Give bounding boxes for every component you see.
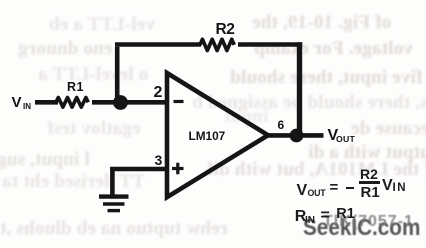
minus sign pin2 (174, 100, 184, 103)
wire ground to pin 3 (110, 167, 166, 172)
wire output node to VOUT (296, 133, 324, 138)
op-amp name LM107 (189, 131, 226, 143)
bleed-through ghost text, right side (252, 13, 391, 32)
label R2 (216, 22, 235, 38)
faint figure id 7057 (323, 214, 414, 230)
ghost fragment inside triangle (224, 107, 268, 126)
label R1 (67, 81, 84, 94)
wire VIN to R1 (35, 100, 58, 105)
ground stem (110, 167, 115, 195)
wire pin 6 to output node (268, 133, 292, 138)
output node dot (290, 129, 304, 143)
plus sign pin3 (172, 163, 184, 174)
ground bar 2 (103, 202, 125, 205)
wire top left to R2 (115, 42, 201, 47)
pin 2 label (154, 85, 163, 101)
watermark SeekIC.com (303, 216, 420, 239)
label VIN (12, 95, 22, 110)
wire R1 to node A (92, 100, 118, 105)
wire node A up to feedback (115, 47, 120, 102)
wire down to output node (297, 42, 302, 133)
wire R2 to right corner (238, 42, 302, 47)
wire node A to pin 2 (120, 100, 166, 105)
resistor R1 (56, 98, 88, 108)
pin 3 label (155, 153, 163, 167)
ground bar 3 (108, 209, 121, 212)
resistor R2 (200, 39, 234, 50)
label VOUT (328, 128, 339, 144)
equation RIN = R1 (295, 209, 307, 225)
bleed-through ghost text, upper left (49, 15, 155, 34)
node A junction dot (113, 95, 128, 110)
op-amp U1 triangle (167, 73, 268, 197)
pin 6 label (278, 119, 285, 131)
ground bar 1 (99, 194, 129, 198)
equation VOUT = -R2/R1 VIN (297, 183, 308, 199)
